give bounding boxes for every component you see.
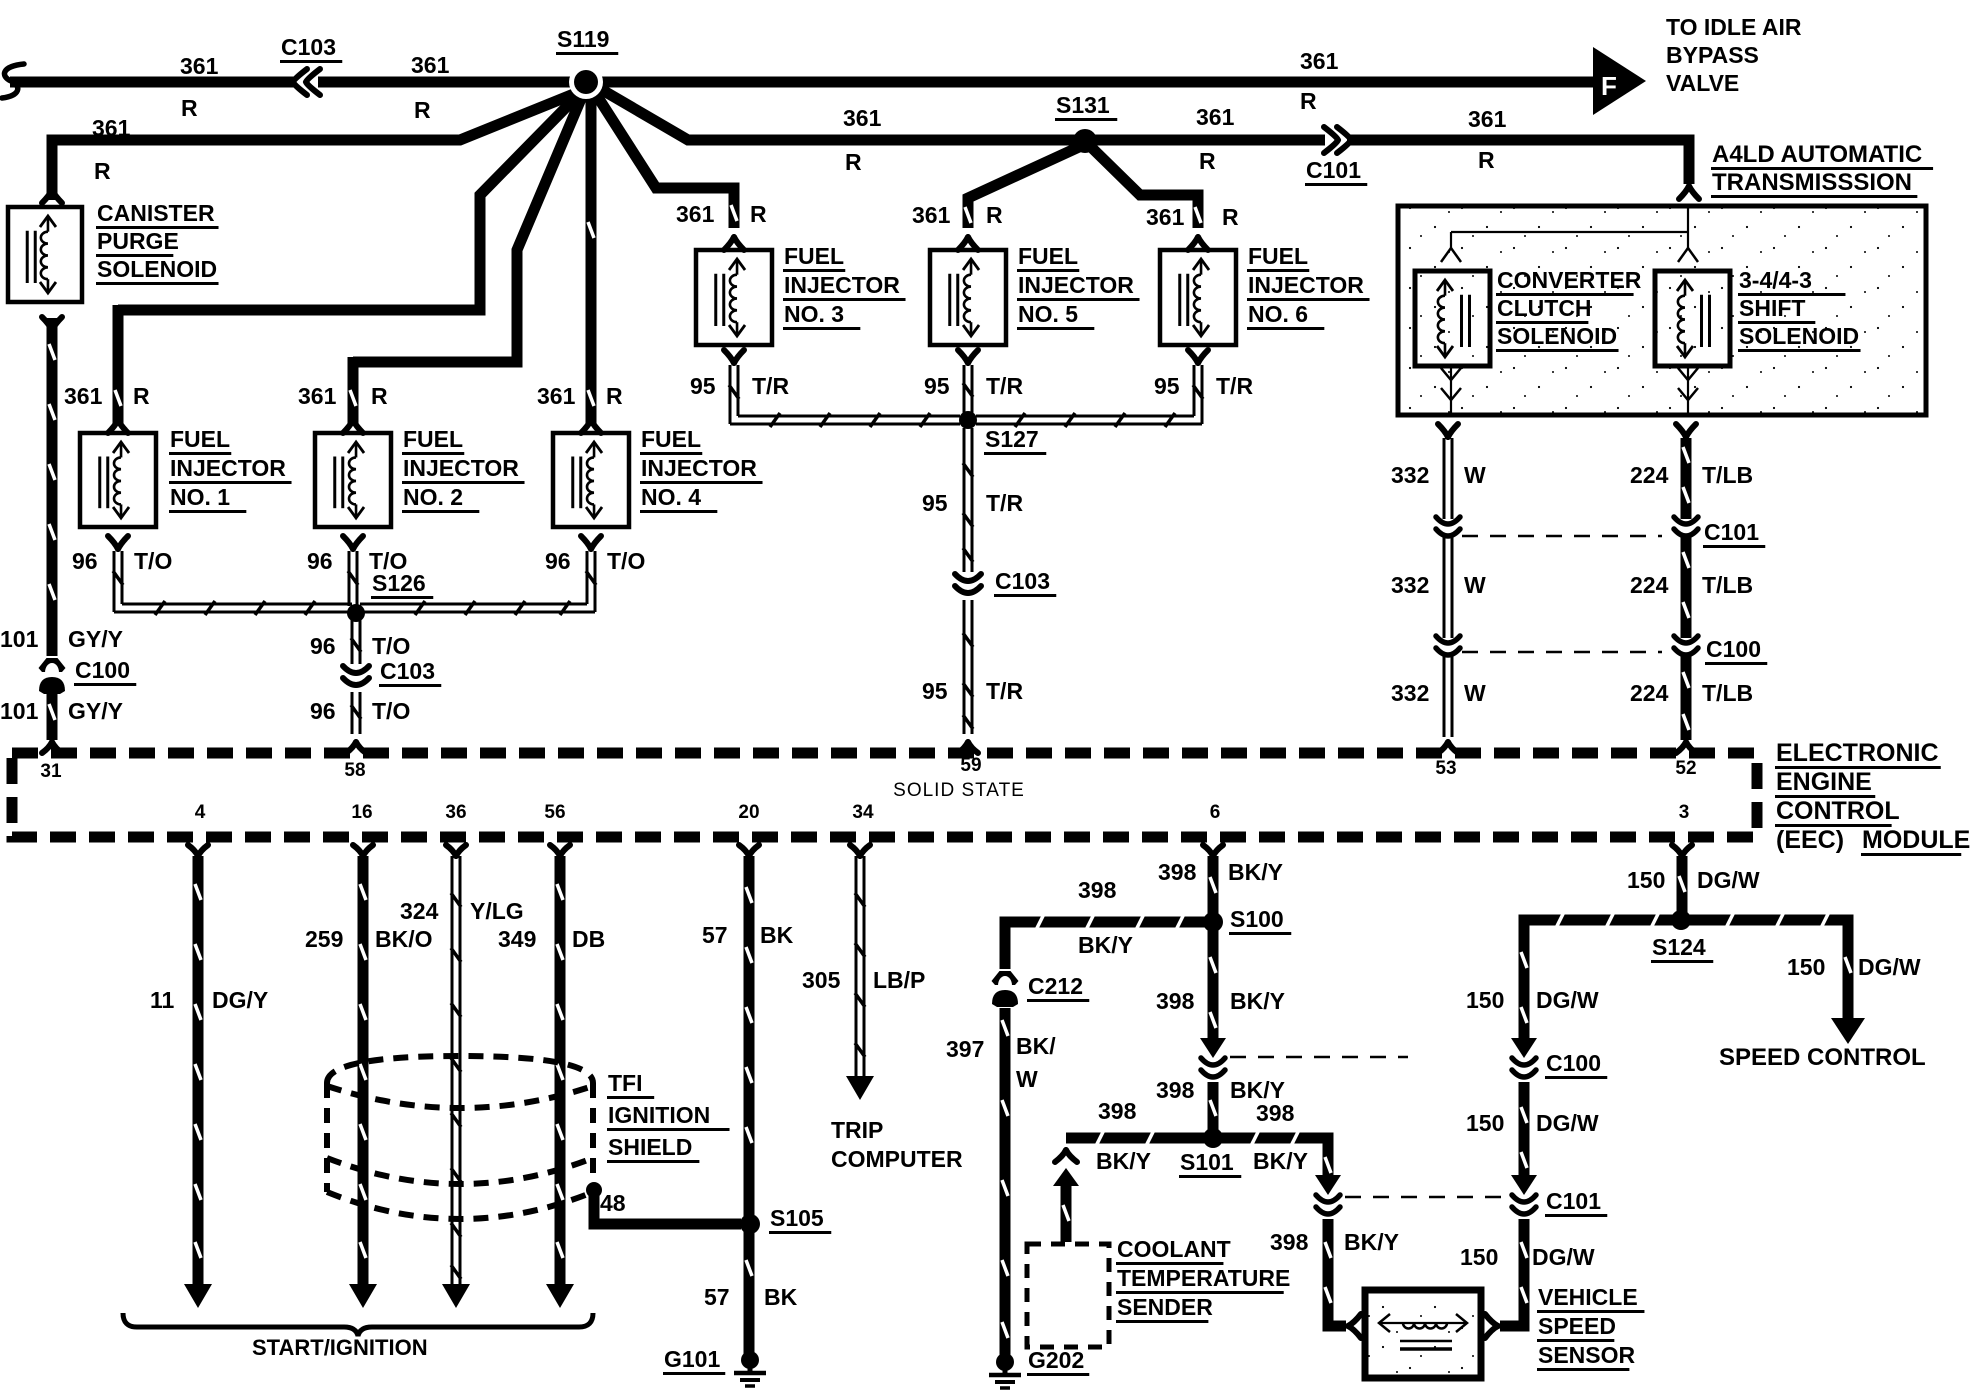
svg-text:224: 224 — [1630, 572, 1669, 598]
svg-text:150: 150 — [1460, 1244, 1498, 1270]
svg-text:361: 361 — [92, 115, 131, 141]
label 101 (lower) — [0, 698, 39, 724]
svg-text:59: 59 — [960, 755, 981, 776]
svg-text:332: 332 — [1391, 680, 1429, 706]
svg-text:150: 150 — [1466, 1110, 1504, 1136]
svg-text:NO. 4: NO. 4 — [641, 484, 701, 510]
svg-text:398: 398 — [1158, 859, 1197, 885]
wire 361 R top horizontal run — [10, 77, 1593, 88]
svg-text:BK: BK — [760, 922, 794, 948]
svg-text:T/R: T/R — [986, 678, 1023, 704]
svg-text:96: 96 — [545, 548, 571, 574]
svg-text:INJECTOR: INJECTOR — [170, 455, 286, 481]
connector wire 96 to EEC pin 58 — [346, 742, 366, 753]
svg-text:SPEED: SPEED — [1538, 1313, 1616, 1339]
svg-text:36: 36 — [445, 802, 466, 823]
connector wire 224 to EEC pin 52 — [1676, 742, 1696, 753]
svg-text:CONVERTER: CONVERTER — [1497, 267, 1642, 293]
svg-text:BK/Y: BK/Y — [1344, 1229, 1399, 1255]
svg-text:R: R — [371, 383, 388, 409]
wire 305 LB/P from EEC pin 34 to trip computer — [846, 845, 874, 1100]
label S100 — [1229, 906, 1291, 934]
svg-text:CLUTCH: CLUTCH — [1497, 295, 1592, 321]
connector C101 on wire 150 — [1512, 1195, 1536, 1214]
svg-text:R: R — [606, 383, 623, 409]
wire 101 GY/Y from canister to EEC pin 31 — [49, 318, 55, 740]
connector below fuel injector no.1 — [108, 536, 128, 549]
svg-text:C100: C100 — [75, 657, 130, 683]
svg-text:R: R — [181, 95, 198, 121]
svg-text:95: 95 — [922, 678, 948, 704]
label S105 — [769, 1205, 831, 1233]
svg-text:4: 4 — [195, 802, 206, 823]
connector C101 on wire 398 — [1316, 1195, 1340, 1214]
svg-text:C101: C101 — [1546, 1188, 1601, 1214]
svg-text:52: 52 — [1675, 758, 1696, 779]
label S127 — [984, 426, 1046, 454]
label 95 (injector 3) — [690, 373, 716, 399]
label BK/Y (above VSS) — [1344, 1229, 1399, 1255]
svg-text:FUEL: FUEL — [403, 426, 463, 452]
connector below fuel injector no.5 — [958, 350, 978, 363]
label BK/Y (left of S101) — [1096, 1148, 1151, 1174]
connector wire 101 to EEC pin 31 — [42, 742, 62, 753]
label Y/LG — [470, 898, 524, 924]
svg-text:(EEC): (EEC) — [1776, 826, 1844, 854]
connector C100 on wire 398 — [1201, 1058, 1225, 1077]
connector at fuel injector no.2 — [343, 420, 363, 433]
connector wire 95 to EEC pin 59 — [958, 742, 978, 753]
pin 3 label — [1679, 802, 1690, 823]
svg-text:S105: S105 — [770, 1205, 824, 1231]
svg-text:DG/Y: DG/Y — [212, 987, 268, 1013]
label 150 (speed control) — [1787, 954, 1825, 980]
label T/R (injector 6) — [1216, 373, 1253, 399]
label 332 W (row2) — [1391, 572, 1486, 598]
svg-text:C101: C101 — [1306, 157, 1361, 183]
svg-text:3-4/4-3: 3-4/4-3 — [1739, 267, 1812, 293]
svg-text:TEMPERATURE: TEMPERATURE — [1117, 1265, 1290, 1291]
label C101 (A4LD) — [1703, 519, 1765, 547]
arrow F to idle air bypass valve — [1593, 47, 1646, 115]
label R (injector 6) — [1222, 204, 1239, 230]
label T/O (injector 1) — [134, 548, 172, 574]
wire S131 to fuel injector no.5 (361 R) — [965, 147, 1079, 228]
label C101 (wire 150) — [1545, 1188, 1607, 1216]
arrow to speed control — [1831, 1018, 1865, 1044]
pin 52 label — [1675, 758, 1696, 779]
wire 96 T/O from injector no.4 to S126 — [360, 551, 596, 615]
label C100 (left) — [74, 657, 136, 685]
svg-text:CANISTER: CANISTER — [97, 200, 215, 226]
wire 361 R down to A4LD transmission — [1680, 140, 1689, 184]
pin arrows below converter clutch solenoid — [1441, 366, 1461, 413]
connector at fuel injector no.3 — [724, 237, 744, 250]
connector C101 on wire 332 — [1436, 517, 1460, 536]
splice S131 — [1073, 129, 1097, 153]
svg-text:361: 361 — [537, 383, 576, 409]
label 150 DG/W (pin 3) — [1627, 867, 1760, 893]
svg-text:T/O: T/O — [134, 548, 172, 574]
svg-text:398: 398 — [1256, 1100, 1295, 1126]
wire 332 W from A4LD to EEC pin 53 — [1444, 438, 1452, 737]
label FUEL INJECTOR NO. 5 — [1017, 243, 1140, 329]
wire fan S119 to fuel injector no.3 (361 R) — [592, 88, 737, 228]
wire 398 BK/Y from C101 to vehicle speed sensor — [1325, 1219, 1346, 1326]
wire 95 T/R from injector no.3 to S127 — [729, 365, 960, 427]
svg-text:TRIP: TRIP — [831, 1117, 883, 1143]
svg-text:C103: C103 — [380, 658, 435, 684]
connector below A4LD (wire 332) — [1438, 424, 1458, 437]
label T/R (above EEC) — [986, 678, 1023, 704]
label R (right of S119 on top wire) — [1300, 88, 1317, 114]
label GY/Y (upper) — [68, 626, 123, 652]
connector at fuel injector no.1 — [108, 420, 128, 433]
svg-text:398: 398 — [1270, 1229, 1309, 1255]
connector C103 inline on wire 361 — [293, 69, 320, 95]
label T/R (S127 to C103) — [986, 490, 1023, 516]
svg-text:FUEL: FUEL — [641, 426, 701, 452]
svg-text:GY/Y: GY/Y — [68, 626, 123, 652]
svg-text:398: 398 — [1098, 1098, 1137, 1124]
label DG/W (above C101) — [1536, 1110, 1599, 1136]
svg-text:361: 361 — [912, 202, 951, 228]
svg-text:SENDER: SENDER — [1117, 1294, 1213, 1320]
svg-text:LB/P: LB/P — [873, 967, 925, 993]
label 259 — [305, 926, 343, 952]
svg-text:TFI: TFI — [608, 1070, 643, 1096]
label 224 T/LB (row3) — [1630, 680, 1753, 706]
label 398 (above VSS) — [1270, 1229, 1309, 1255]
label 361 (injector 4) — [537, 383, 576, 409]
label 96 (injector 4) — [545, 548, 571, 574]
label BK/O — [375, 926, 433, 952]
svg-text:397: 397 — [946, 1036, 984, 1062]
label 57 BK (lower) — [704, 1284, 798, 1310]
label CONVERTER CLUTCH SOLENOID — [1496, 267, 1642, 351]
connector C103 on wire 96 — [343, 666, 369, 685]
label 349 — [498, 926, 536, 952]
svg-text:R: R — [750, 201, 767, 227]
svg-text:W: W — [1016, 1066, 1038, 1092]
svg-text:58: 58 — [344, 760, 365, 781]
svg-text:CONTROL: CONTROL — [1776, 797, 1900, 825]
svg-text:57: 57 — [702, 922, 728, 948]
svg-text:C103: C103 — [281, 34, 336, 60]
label TFI IGNITION SHIELD — [607, 1070, 730, 1162]
connector C100 on wire 150 — [1512, 1058, 1536, 1077]
label 361 (S131 to C101) — [1196, 104, 1235, 130]
label R (injector 3) — [750, 201, 767, 227]
svg-text:224: 224 — [1630, 680, 1669, 706]
canister purge solenoid CP1 — [8, 207, 82, 302]
label 224 T/LB (row1) — [1630, 462, 1753, 488]
svg-text:W: W — [1464, 680, 1486, 706]
label C103 (wire 95) — [994, 568, 1056, 596]
svg-text:T/R: T/R — [986, 490, 1023, 516]
svg-text:361: 361 — [1196, 104, 1235, 130]
label R (injector 5) — [986, 202, 1003, 228]
label 305 — [802, 967, 841, 993]
label 361 (second wire left) — [92, 115, 131, 141]
label DG/W (above VSS) — [1532, 1244, 1595, 1270]
label 398 BK/Y (above S101) — [1156, 1077, 1285, 1103]
wire 95 T/R from injector no.6 to S127 — [976, 365, 1203, 427]
wire 398 BK/Y from C100 to S101 — [1210, 1082, 1216, 1132]
label FUEL INJECTOR NO. 4 — [640, 426, 763, 512]
svg-text:FUEL: FUEL — [1248, 243, 1308, 269]
label COOLANT TEMPERATURE SENDER — [1116, 1236, 1290, 1322]
connector at vehicle speed sensor right — [1485, 1314, 1498, 1338]
svg-text:G101: G101 — [664, 1346, 720, 1372]
wire 96 T/O from injector no.1 to S126 — [113, 551, 352, 615]
svg-text:INJECTOR: INJECTOR — [1248, 272, 1364, 298]
label C103 (top) — [280, 34, 342, 62]
label 324 — [400, 898, 439, 924]
svg-text:361: 361 — [1300, 48, 1339, 74]
splice S126 — [347, 604, 365, 622]
wire 259 BK/O from EEC pin 16 to start/ignition — [349, 845, 377, 1308]
connector wire 332 to EEC pin 53 — [1438, 742, 1458, 753]
svg-text:INJECTOR: INJECTOR — [784, 272, 900, 298]
svg-text:96: 96 — [72, 548, 98, 574]
label T/R (injector 5) — [986, 373, 1023, 399]
svg-text:101: 101 — [0, 698, 39, 724]
svg-text:324: 324 — [400, 898, 439, 924]
label DG/W (speed control) — [1858, 954, 1921, 980]
connector below fuel injector no.2 — [343, 536, 363, 549]
connector at fuel injector no.5 — [958, 237, 978, 250]
arrow into C100 on wire 398 — [1200, 1038, 1226, 1058]
svg-text:BK/Y: BK/Y — [1078, 932, 1133, 958]
svg-text:95: 95 — [922, 490, 948, 516]
fuel injector no.5 — [930, 250, 1006, 345]
label 361 (injector 5) — [912, 202, 951, 228]
label R (injector 1) — [133, 383, 150, 409]
svg-text:T/O: T/O — [607, 548, 645, 574]
svg-text:DG/W: DG/W — [1697, 867, 1760, 893]
label 96 (below S126) — [310, 633, 336, 659]
svg-text:96: 96 — [307, 548, 333, 574]
wire 57 BK from EEC pin 20 to ground G101 — [739, 845, 759, 1354]
label VEHICLE SPEED SENSOR — [1537, 1284, 1644, 1370]
svg-text:C103: C103 — [995, 568, 1050, 594]
connector below fuel injector no.3 — [724, 350, 744, 363]
svg-text:SOLENOID: SOLENOID — [1739, 323, 1859, 349]
label 150 (above C101) — [1466, 1110, 1504, 1136]
label T/O (above EEC) — [372, 698, 410, 724]
svg-text:361: 361 — [180, 53, 219, 79]
label DG/Y — [212, 987, 268, 1013]
label 361 (left of C103) — [180, 53, 219, 79]
svg-text:95: 95 — [1154, 373, 1180, 399]
fuel injector no.6 — [1160, 250, 1236, 345]
svg-text:T/O: T/O — [372, 633, 410, 659]
label 397 — [946, 1036, 984, 1062]
label START/IGNITION — [252, 1335, 428, 1360]
label 224 T/LB (row2) — [1630, 572, 1753, 598]
svg-text:398: 398 — [1156, 1077, 1195, 1103]
svg-text:S131: S131 — [1056, 92, 1110, 118]
svg-text:START/IGNITION: START/IGNITION — [252, 1335, 428, 1360]
splice S100 — [1203, 912, 1223, 932]
svg-text:T/R: T/R — [986, 373, 1023, 399]
connector C212 — [992, 971, 1019, 1007]
label 96 (above EEC) — [310, 698, 336, 724]
svg-text:ENGINE: ENGINE — [1776, 768, 1872, 796]
splice S127 — [959, 411, 977, 429]
label T/O (below S126) — [372, 633, 410, 659]
electronic engine control (EEC) module dashed box — [12, 753, 1757, 837]
label 332 W (row1) — [1391, 462, 1486, 488]
wire 96 T/O from C103 to EEC pin 58 — [351, 692, 361, 734]
pin 59 label — [960, 755, 981, 776]
svg-text:361: 361 — [298, 383, 337, 409]
splice S119 — [569, 65, 603, 99]
label C100 (A4LD) — [1705, 636, 1767, 664]
label 95 (injector 5) — [924, 373, 950, 399]
svg-text:T/O: T/O — [372, 698, 410, 724]
dashed link C100 between wires 332 and 224 — [1462, 651, 1662, 654]
brace start/ignition — [123, 1313, 593, 1336]
label R (injector 2) — [371, 383, 388, 409]
svg-text:150: 150 — [1627, 867, 1665, 893]
pin 20 label — [738, 802, 759, 823]
pin 4 label — [195, 802, 206, 823]
arrow into C101 on wire 150 — [1511, 1175, 1537, 1195]
svg-text:T/LB: T/LB — [1702, 572, 1753, 598]
svg-text:361: 361 — [64, 383, 103, 409]
pin 34 label — [852, 802, 874, 823]
svg-text:INJECTOR: INJECTOR — [1018, 272, 1134, 298]
svg-text:R: R — [1222, 204, 1239, 230]
label R (second wire left) — [94, 158, 111, 184]
svg-text:Y/LG: Y/LG — [470, 898, 524, 924]
svg-text:259: 259 — [305, 926, 343, 952]
svg-text:A4LD AUTOMATIC: A4LD AUTOMATIC — [1712, 141, 1922, 168]
svg-text:INJECTOR: INJECTOR — [403, 455, 519, 481]
arrow into C100 on wire 150 — [1511, 1038, 1537, 1058]
label ELECTRONIC ENGINE CONTROL (EEC) MODULE — [1775, 739, 1970, 855]
wire 11 DG/Y from EEC pin 4 to start/ignition — [184, 845, 212, 1308]
pin 16 label — [351, 802, 372, 823]
wire 150 DG/W from S124 to C100 — [1521, 912, 1673, 1048]
label 361 (C101 to A4LD) — [1468, 106, 1507, 132]
fuel injector no.1 — [80, 433, 156, 527]
svg-text:361: 361 — [411, 52, 450, 78]
svg-text:16: 16 — [351, 802, 372, 823]
connector at fuel injector no.6 — [1188, 237, 1208, 250]
label 398 (right of S101) — [1256, 1100, 1295, 1126]
wire fan S119 to fuel injector no.4 (361 R) — [588, 95, 594, 425]
label DG/W (above C100) — [1536, 987, 1599, 1013]
3-4/4-3 shift solenoid — [1655, 271, 1730, 366]
svg-text:VEHICLE: VEHICLE — [1538, 1284, 1638, 1310]
label 96 (injector 1) — [72, 548, 98, 574]
svg-text:96: 96 — [310, 698, 336, 724]
svg-text:SHIFT: SHIFT — [1739, 295, 1805, 321]
svg-text:34: 34 — [852, 802, 874, 823]
label 398 (left of S101) — [1098, 1098, 1137, 1124]
svg-text:C101: C101 — [1704, 519, 1759, 545]
connector C101 on wire 224 — [1674, 517, 1698, 536]
wire S119 to S131 (361 R) — [592, 84, 1685, 140]
connector at fuel injector no.4 — [581, 420, 601, 433]
pin arrow into converter clutch solenoid — [1441, 248, 1461, 262]
label GY/Y (lower) — [68, 698, 123, 724]
label S131 — [1055, 92, 1117, 120]
label R (S131 to C101) — [1199, 148, 1216, 174]
svg-text:305: 305 — [802, 967, 841, 993]
label 361 (right of C103) — [411, 52, 450, 78]
label BK/Y (S100 branch) — [1078, 932, 1133, 958]
wire 361 R from S119 splice to canister purge solenoid — [52, 87, 591, 200]
label S124 — [1651, 934, 1713, 962]
svg-text:BK/Y: BK/Y — [1096, 1148, 1151, 1174]
svg-text:PURGE: PURGE — [97, 228, 179, 254]
svg-text:398: 398 — [1156, 988, 1195, 1014]
A4LD automatic transmission box — [1398, 206, 1926, 415]
svg-text:NO. 5: NO. 5 — [1018, 301, 1078, 327]
svg-text:W: W — [1464, 572, 1486, 598]
label R (right of C103) — [414, 97, 431, 123]
svg-text:SHIELD: SHIELD — [608, 1134, 692, 1160]
svg-text:BK/: BK/ — [1016, 1033, 1056, 1059]
label 150 (above VSS) — [1460, 1244, 1498, 1270]
wire 397 BK/W from C212 to ground G202 — [1002, 1008, 1008, 1356]
label 361 (right of S119 on top wire) — [1300, 48, 1339, 74]
svg-text:BK/Y: BK/Y — [1230, 988, 1285, 1014]
wire 96 T/O from S126 to C103 — [351, 620, 361, 664]
label R (left of C103) — [181, 95, 198, 121]
svg-text:95: 95 — [690, 373, 716, 399]
ground G202 — [989, 1353, 1021, 1388]
label C212 — [1027, 973, 1089, 1001]
splice S105 — [740, 1214, 760, 1234]
label CANISTER PURGE SOLENOID — [96, 200, 219, 284]
svg-text:S100: S100 — [1230, 906, 1284, 932]
label 361 (S119 to S131) — [843, 105, 882, 131]
connector C103 on wire 95 — [955, 574, 981, 593]
wire 150 DG/W from EEC pin 3 to S124 — [1672, 845, 1692, 914]
svg-text:SOLENOID: SOLENOID — [97, 256, 217, 282]
svg-text:53: 53 — [1435, 758, 1456, 779]
label R (S119 to S131) — [845, 149, 862, 175]
svg-text:150: 150 — [1466, 987, 1504, 1013]
label T/O (injector 4) — [607, 548, 645, 574]
label R (C101 to A4LD) — [1478, 147, 1495, 173]
svg-text:NO. 6: NO. 6 — [1248, 301, 1308, 327]
label C100 (wire 150) — [1545, 1050, 1607, 1078]
svg-text:COOLANT: COOLANT — [1117, 1236, 1231, 1262]
wire 150 DG/W from S124 to speed control — [1689, 912, 1851, 1018]
connector C100 on wire 224 — [1674, 636, 1698, 655]
label 95 (injector 6) — [1154, 373, 1180, 399]
svg-text:96: 96 — [310, 633, 336, 659]
svg-text:56: 56 — [544, 802, 565, 823]
svg-text:BK/O: BK/O — [375, 926, 433, 952]
label 95 (S127 to C103) — [922, 490, 948, 516]
pin 6 label — [1210, 802, 1221, 823]
label T/R (injector 3) — [752, 373, 789, 399]
svg-text:GY/Y: GY/Y — [68, 698, 123, 724]
label 398 BK/Y (pin 6) — [1158, 859, 1283, 885]
svg-text:BK: BK — [764, 1284, 798, 1310]
label DB — [572, 926, 605, 952]
wire fan S119 to fuel injector no.2 (361 R) — [350, 87, 586, 425]
continuation squiggle S at left end of wire 361 — [2, 64, 24, 98]
label SOLID STATE — [893, 780, 1025, 801]
